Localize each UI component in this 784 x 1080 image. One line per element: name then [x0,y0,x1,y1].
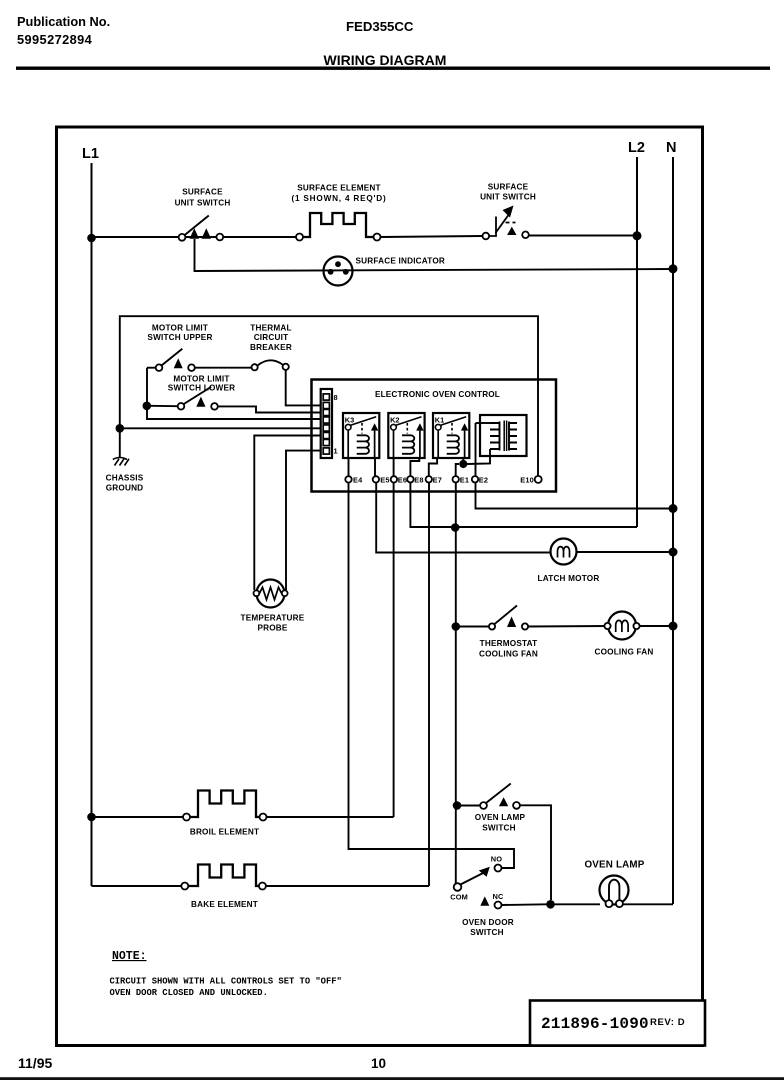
svg-text:SWITCH UPPER: SWITCH UPPER [147,333,212,342]
svg-text:SURFACE INDICATOR: SURFACE INDICATOR [356,257,446,266]
svg-text:K3: K3 [345,416,354,425]
svg-text:OVEN DOOR CLOSED AND UNLOCKED.: OVEN DOOR CLOSED AND UNLOCKED. [110,988,268,998]
svg-text:SWITCH LOWER: SWITCH LOWER [168,384,235,393]
svg-text:UNIT SWITCH: UNIT SWITCH [480,193,536,202]
svg-text:E10: E10 [520,475,534,484]
svg-text:SWITCH: SWITCH [470,928,504,937]
svg-text:E2: E2 [479,475,488,484]
svg-text:WIRING DIAGRAM: WIRING DIAGRAM [324,52,447,68]
svg-text:THERMOSTAT: THERMOSTAT [480,639,538,648]
svg-text:GROUND: GROUND [106,484,144,493]
svg-text:11/95: 11/95 [18,1055,52,1071]
svg-text:CIRCUIT: CIRCUIT [254,333,289,342]
svg-text:5995272894: 5995272894 [17,32,93,47]
svg-text:BROIL ELEMENT: BROIL ELEMENT [190,828,259,837]
svg-text:SWITCH: SWITCH [482,824,516,833]
svg-text:CHASSIS: CHASSIS [106,474,144,483]
svg-text:PROBE: PROBE [257,624,287,633]
svg-text:K1: K1 [435,416,444,425]
svg-text:E8: E8 [414,475,423,484]
svg-text:COOLING FAN: COOLING FAN [594,648,653,657]
svg-text:REV: D: REV: D [650,1017,685,1028]
svg-text:211896-1090: 211896-1090 [541,1015,649,1033]
svg-text:(1 SHOWN, 4 REQ'D): (1 SHOWN, 4 REQ'D) [291,194,386,203]
svg-text:E1: E1 [460,475,469,484]
svg-text:CIRCUIT SHOWN WITH ALL CONTROL: CIRCUIT SHOWN WITH ALL CONTROLS SET TO "… [110,977,342,987]
svg-text:NC: NC [493,892,505,901]
svg-text:E4: E4 [353,475,363,484]
svg-text:ELECTRONIC OVEN CONTROL: ELECTRONIC OVEN CONTROL [375,390,500,399]
svg-text:COM: COM [450,893,468,902]
svg-text:OVEN DOOR: OVEN DOOR [462,918,514,927]
svg-text:10: 10 [371,1056,386,1071]
svg-text:THERMAL: THERMAL [250,324,291,333]
svg-text:1: 1 [334,447,338,456]
svg-text:SURFACE: SURFACE [488,183,529,192]
svg-text:OVEN LAMP: OVEN LAMP [584,860,644,871]
svg-text:E7: E7 [433,475,442,484]
svg-text:SURFACE: SURFACE [182,188,223,197]
svg-text:K2: K2 [390,416,399,425]
svg-text:MOTOR LIMIT: MOTOR LIMIT [152,324,208,333]
svg-text:FED355CC: FED355CC [346,19,414,34]
svg-text:8: 8 [334,393,338,402]
svg-text:NOTE:: NOTE: [112,950,147,963]
svg-text:OVEN LAMP: OVEN LAMP [475,813,526,822]
svg-text:NO: NO [491,855,503,864]
svg-text:Publication No.: Publication No. [17,14,110,29]
svg-text:SURFACE ELEMENT: SURFACE ELEMENT [297,184,381,193]
svg-text:LATCH MOTOR: LATCH MOTOR [538,574,600,583]
svg-text:L2: L2 [628,140,645,156]
svg-text:E6: E6 [398,475,407,484]
svg-text:L1: L1 [82,146,99,162]
svg-text:UNIT SWITCH: UNIT SWITCH [175,199,231,208]
svg-text:N: N [666,140,676,156]
svg-text:E5: E5 [380,475,389,484]
svg-text:BREAKER: BREAKER [250,343,292,352]
svg-text:MOTOR LIMIT: MOTOR LIMIT [173,375,229,384]
svg-text:BAKE ELEMENT: BAKE ELEMENT [191,900,258,909]
svg-text:TEMPERATURE: TEMPERATURE [241,614,305,623]
svg-text:COOLING FAN: COOLING FAN [479,650,538,659]
